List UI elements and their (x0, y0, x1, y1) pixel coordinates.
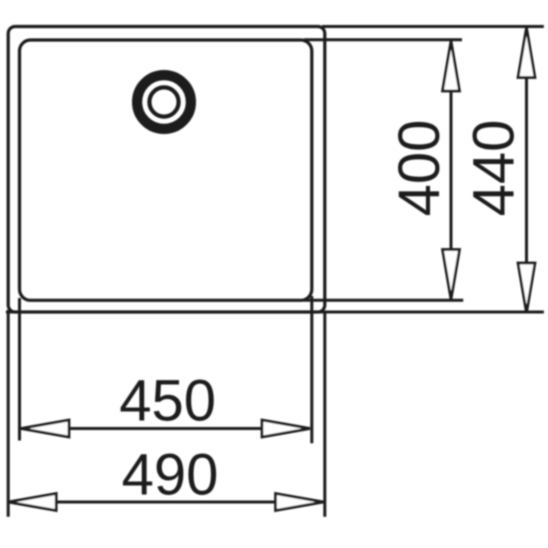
svg-text:450: 450 (119, 369, 216, 434)
dimension 440 arrow down (518, 263, 535, 313)
dimension 440 arrow up (518, 28, 535, 78)
sink bowl inner rectangle (20, 40, 312, 300)
extension line right inner (450) (310, 296, 313, 443)
dimension 490 arrow left (8, 494, 56, 511)
extension line bottom inner (400) (304, 299, 463, 302)
extension line top outer (440) (322, 25, 544, 28)
drain hole outer ring (137, 75, 191, 129)
dimension 490 line (8, 501, 323, 504)
extension line right outer (490) (323, 312, 326, 517)
dimension 450 arrow left (21, 420, 69, 437)
dimension 450 line (21, 427, 310, 430)
extension line bottom outer (440) (6, 311, 544, 314)
svg-text:440: 440 (462, 120, 527, 217)
dimension 400 arrow down (443, 250, 460, 300)
dimension 400 line (450, 41, 453, 300)
svg-text:400: 400 (387, 120, 452, 217)
dimension 490 arrow right (276, 494, 324, 511)
drain hole inner ring (149, 87, 178, 116)
sink outer rim rectangle (8, 27, 325, 313)
svg-text:490: 490 (122, 443, 219, 508)
dimension 440 line (525, 28, 528, 314)
dimension 400 arrow up (443, 41, 460, 91)
extension line left inner (450) (18, 298, 21, 441)
extension line top inner (400) (304, 38, 462, 41)
extension line left outer (490) (7, 310, 10, 517)
dimension 450 arrow right (262, 420, 310, 437)
